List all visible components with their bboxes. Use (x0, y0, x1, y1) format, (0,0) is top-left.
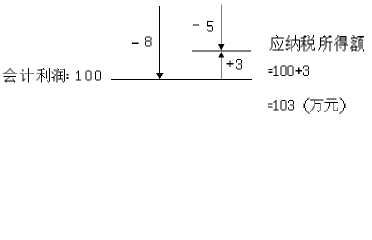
text =100+3 plus (295, 70, 302, 71)
text 会计利润：100 colon dots (67, 74, 69, 76)
text 应纳税所得额 char 所 (318, 35, 332, 51)
text 会计利润：100 digit 1 (76, 70, 81, 80)
text =100+3 digit 0 (287, 66, 293, 76)
text =103（万元） char 元 (325, 99, 339, 113)
text =103（万元） open paren (304, 97, 310, 113)
wire: short upper horizontal line (192, 51, 251, 52)
arrow +3 shaft (220, 58, 223, 80)
text 应纳税所得额 char 税 (301, 35, 315, 51)
text =103（万元） equals (268, 104, 272, 105)
arrow +3 head (pointing up) (218, 52, 224, 58)
label -5 digit 5 (207, 21, 213, 31)
label +3 digit 3 (236, 59, 242, 69)
text =100+3 equals (268, 69, 272, 70)
text 会计利润：100 char 利 (36, 68, 49, 82)
label -8 digit 8 (145, 36, 151, 46)
text =100+3 digit 3 (303, 66, 309, 76)
text =100+3 digit 1 (273, 66, 278, 76)
text 应纳税所得额 char 应 (269, 35, 283, 50)
text 应纳税所得额 char 纳 (286, 35, 300, 51)
wire: main horizontal line (accounting profit axis) (111, 79, 252, 80)
text 会计利润：100 char 会 (3, 68, 17, 82)
text =103（万元） digit 3 (288, 100, 294, 110)
text 应纳税所得额 char 得 (334, 35, 348, 51)
text =100+3 digit 0 (280, 66, 286, 76)
text =103（万元） digit 1 (273, 100, 278, 110)
diagram: taxable income adjustment over accounting profit (0, 0, 372, 124)
text 会计利润：100 digit 0 (95, 70, 101, 80)
text 会计利润：100 char 计 (20, 68, 34, 82)
text 会计利润：100 char 润 (52, 68, 65, 82)
arrow -5 head (218, 44, 224, 50)
arrow -5 shaft (220, 5, 223, 45)
arrow -8 shaft (158, 6, 161, 74)
label -5 minus (193, 25, 199, 26)
text =103（万元） digit 0 (280, 100, 286, 110)
text 会计利润：100 digit 0 (85, 70, 91, 80)
text =103（万元） close paren (339, 97, 345, 113)
text 应纳税所得额 char 额 (350, 35, 364, 51)
arrow -8 head (156, 73, 163, 79)
label -8 minus (132, 43, 139, 44)
text =103（万元） char 万 (310, 99, 324, 112)
label +3 plus (226, 63, 233, 64)
